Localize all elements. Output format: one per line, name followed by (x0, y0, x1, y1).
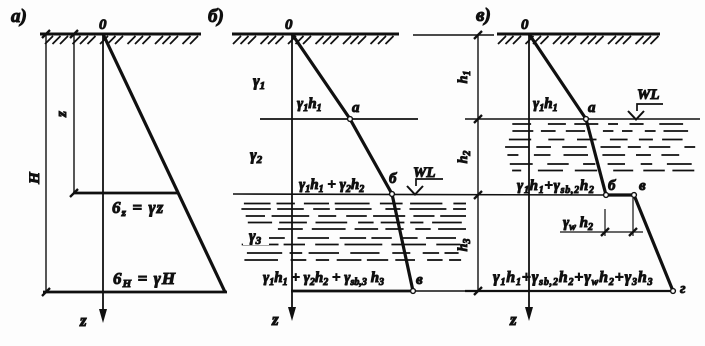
svg-text:а): а) (11, 6, 27, 27)
tick z top (70, 30, 78, 38)
layer1 line v (465, 118, 700, 120)
bottom line v (465, 290, 673, 292)
layer1 line b (260, 118, 418, 120)
tick H bottom (42, 288, 50, 296)
tick v y195 (474, 191, 482, 199)
WL bar b (416, 179, 443, 186)
ground level extension line v (413, 34, 494, 36)
ground hatch v (498, 36, 659, 44)
point a circle v (584, 117, 589, 122)
sigma-z level line (73, 192, 177, 195)
axis z v (528, 34, 530, 315)
svg-text:в): в) (476, 5, 491, 26)
gw h2 extension from v (632, 198, 634, 236)
axis arrow b (288, 307, 296, 321)
svg-text:WL: WL (637, 87, 660, 103)
WL arrow v (628, 111, 644, 120)
water line b-v (233, 194, 605, 195)
gw h2 dim line (560, 231, 643, 233)
tick gw right (629, 228, 637, 236)
svg-text:0: 0 (99, 17, 107, 33)
WL arrow b (407, 186, 423, 195)
svg-text:б: б (608, 178, 616, 194)
tick H top (42, 30, 50, 38)
axis arrow a (99, 309, 107, 323)
svg-text:б: б (389, 171, 397, 187)
WL bar v (637, 104, 663, 111)
svg-text:в: в (639, 178, 646, 194)
point a circle b (348, 117, 353, 122)
halo gamma3 (243, 224, 269, 245)
tick gw left (601, 228, 609, 236)
point g circle v (671, 289, 676, 294)
bottom thin continuation (413, 290, 465, 292)
ground line b (232, 33, 399, 36)
svg-text:6z = γz: 6z = γz (112, 198, 164, 219)
tick v y34 (474, 31, 482, 39)
svg-text:0: 0 (285, 17, 293, 33)
svg-text:в: в (416, 272, 423, 288)
water hatch v (505, 124, 695, 171)
ground line v (497, 33, 660, 36)
svg-text:z: z (79, 311, 87, 330)
svg-text:б): б) (208, 6, 224, 27)
stress polyline b (292, 34, 413, 291)
dimension z line (73, 34, 75, 193)
axis z a (102, 34, 104, 317)
tick v y291 (474, 287, 482, 295)
svg-text:z: z (509, 310, 517, 329)
tick v y119 (474, 115, 482, 123)
gw h2 extension from b (604, 209, 606, 236)
svg-text:6H = γH: 6H = γH (113, 269, 176, 290)
svg-text:a: a (588, 100, 596, 116)
svg-text:z: z (271, 310, 279, 329)
point b circle v (604, 193, 609, 198)
point v circle v (632, 193, 637, 198)
dimension H line (45, 34, 47, 292)
axis z b (291, 34, 293, 315)
stress polyline v (529, 34, 673, 291)
bottom line b (291, 290, 413, 293)
svg-text:a: a (352, 100, 360, 116)
svg-text:г: г (680, 281, 686, 297)
point b circle b (390, 192, 395, 197)
svg-text:H: H (27, 171, 43, 185)
stress slope a (103, 34, 225, 292)
ground hatch a (45, 36, 198, 44)
ground hatch b (233, 36, 394, 44)
bottom line a (43, 291, 227, 294)
axis arrow v (525, 307, 533, 321)
point v circle b (411, 289, 416, 294)
ground line a (40, 33, 201, 36)
water hatch b (241, 204, 466, 261)
dimension column v (477, 34, 479, 291)
svg-text:0: 0 (521, 17, 529, 33)
svg-text:z: z (54, 111, 70, 118)
tick z bottom (70, 189, 78, 197)
